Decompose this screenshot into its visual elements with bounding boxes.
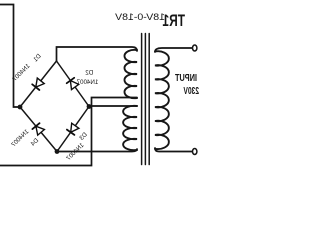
wire: centre tap lower lead to bridge node <box>89 105 137 107</box>
wire: top AC lead from transformer secondary to bridge top node <box>57 47 138 61</box>
mirrored schematic group <box>0 5 199 166</box>
bridge arm left node to B (D3 arm) <box>57 107 89 152</box>
svg-text:230V: 230V <box>183 86 199 97</box>
bridge arm left node to T (D2 arm) <box>57 61 90 107</box>
terminal: input bottom <box>193 149 197 155</box>
transformer core <box>148 34 150 165</box>
terminal: input top <box>193 45 197 51</box>
svg-text:1N4007: 1N4007 <box>76 79 98 86</box>
bridge arm B to right node (D4 arm) <box>20 107 57 152</box>
svg-text:INPUT: INPUT <box>175 72 197 84</box>
svg-text:D2: D2 <box>85 70 93 77</box>
wire: primary bottom lead <box>155 148 192 152</box>
wire: bottom AC lead from secondary to bridge bottom node <box>57 149 137 152</box>
node: bridge left junction <box>87 104 92 109</box>
diode D4 <box>36 126 45 135</box>
wire: centre tap upper lead and down run to bottom rail <box>0 98 137 166</box>
node: bridge bottom junction <box>55 149 60 154</box>
diode D2 <box>70 81 78 90</box>
svg-text:18V-0-18V: 18V-0-18V <box>114 12 165 22</box>
transformer TR1 secondary upper winding <box>124 50 137 98</box>
wire: positive output from bridge right node to top edge <box>0 5 18 108</box>
wire: primary top lead <box>155 48 192 52</box>
transformer TR1 primary winding <box>155 51 169 149</box>
node: bridge right junction <box>18 105 23 110</box>
diode D1 <box>36 78 44 87</box>
bridge arm T to right node (D1 arm) <box>20 61 57 107</box>
diode D3 <box>71 123 79 132</box>
transformer TR1 secondary lower winding <box>123 106 137 150</box>
